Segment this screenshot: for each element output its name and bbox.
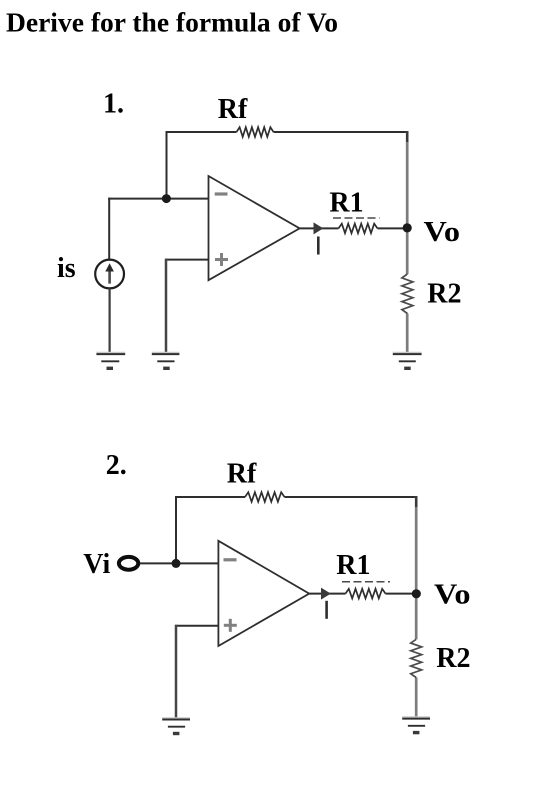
svg-text:is: is — [57, 253, 76, 284]
svg-text:R2: R2 — [436, 643, 470, 674]
svg-text:Derive for the formula of Vo: Derive for the formula of Vo — [6, 7, 338, 38]
svg-text:R1: R1 — [329, 187, 363, 218]
svg-text:Rf: Rf — [218, 94, 248, 125]
svg-text:R1: R1 — [336, 550, 370, 581]
svg-text:Vo: Vo — [434, 580, 471, 611]
svg-text:Vi: Vi — [83, 549, 110, 580]
svg-text:Vo: Vo — [424, 217, 461, 248]
svg-text:Rf: Rf — [227, 459, 257, 490]
svg-text:R2: R2 — [427, 278, 461, 309]
svg-text:1.: 1. — [103, 89, 124, 120]
svg-text:2.: 2. — [106, 450, 127, 481]
